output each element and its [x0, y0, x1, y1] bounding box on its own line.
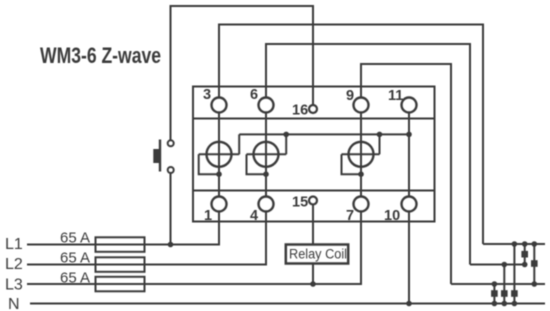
wire relay coil to L3 [312, 264, 314, 285]
load R5 (phase A to C) [531, 260, 538, 267]
terminal 10 [402, 197, 417, 212]
M1 shunt loop [199, 154, 219, 174]
load drop A-N [513, 244, 515, 304]
wire neutral inside meter (11 to 10) [408, 114, 410, 197]
terminal 3 [212, 98, 227, 113]
svg-text:15: 15 [292, 195, 308, 211]
wire phase A inside meter (3 to 1) [218, 114, 220, 197]
M3 shunt loop [342, 154, 362, 174]
wire L3 to terminal 7 [27, 212, 361, 284]
junction M1 shunt/phase A [216, 171, 222, 177]
wire terminal 6 to right side drop [266, 44, 470, 265]
wire terminal 3 to right side drop [219, 25, 483, 245]
junction load C on line C [492, 281, 498, 287]
terminal 1 [212, 197, 227, 212]
junction load C on N [492, 301, 498, 307]
svg-text:L3: L3 [5, 277, 23, 294]
svg-text:WM3-6 Z-wave: WM3-6 Z-wave [40, 43, 161, 68]
terminal 4 [259, 197, 274, 212]
wire terminal 10 to N [408, 212, 410, 304]
pushbutton S1 actuator bar [159, 140, 161, 172]
junction load A on line A [512, 241, 518, 247]
junction terminal 10 wire on N [406, 301, 412, 307]
meter top terminal strip divider [193, 118, 435, 120]
wire terminal 9 to right side drop [361, 64, 451, 284]
svg-text:9: 9 [346, 88, 354, 104]
wire L1 to terminal 1 [27, 212, 219, 245]
load R1 (phase A to N) [511, 290, 518, 297]
load line phase B (right) [470, 264, 525, 266]
load drop A-B [524, 244, 526, 265]
junction load A-B top [522, 241, 528, 247]
measuring element M2 [254, 142, 279, 167]
M2 voltage riser [285, 134, 287, 154]
load R3 (phase C to N) [491, 290, 498, 297]
load drop C-N [493, 284, 495, 304]
measuring element M3 [349, 142, 374, 167]
load line phase A (right) [483, 243, 545, 245]
load R2 (phase B to N) [501, 290, 508, 297]
wire terminal 15 to relay coil [312, 205, 314, 245]
svg-text:L1: L1 [5, 236, 23, 253]
svg-text:65 A: 65 A [60, 250, 90, 267]
junction M3 shunt/phase C [358, 171, 364, 177]
load drop A-C [533, 244, 535, 284]
fuse F1 65A [96, 237, 145, 252]
svg-text:65 A: 65 A [60, 230, 90, 247]
relay coil K1 box [286, 245, 348, 264]
junction load B on line B [502, 262, 508, 268]
svg-text:7: 7 [346, 208, 354, 224]
junction load A on N [512, 301, 518, 307]
junction M2 shunt/phase B [263, 171, 269, 177]
terminal 9 [354, 98, 369, 113]
junction bus/neutral wire [406, 132, 412, 138]
junction M2 riser/bus [283, 132, 289, 138]
load line phase C (right) [451, 283, 545, 285]
pushbutton S1 cap [153, 149, 159, 163]
junction load A-B bottom [522, 262, 528, 268]
svg-text:11: 11 [388, 88, 403, 104]
terminal 6 [259, 98, 274, 113]
junction pushbutton tap on L1 [168, 242, 174, 248]
fuse F2 65A [96, 257, 145, 272]
svg-text:4: 4 [250, 208, 258, 224]
junction M3 riser/bus [377, 132, 383, 138]
meter bottom terminal strip divider [193, 190, 435, 192]
measuring element M1 [207, 142, 232, 167]
fuse F3 65A [96, 277, 145, 292]
svg-text:10: 10 [384, 208, 400, 224]
terminal 11 [402, 98, 417, 113]
svg-text:L2: L2 [5, 256, 23, 273]
wire phase C inside meter (9 to 7) [360, 114, 362, 197]
terminal 15 [309, 197, 317, 205]
wire L2 to terminal 4 [27, 212, 266, 265]
junction relay coil tap on L3 [310, 281, 316, 287]
svg-text:65 A: 65 A [60, 270, 90, 287]
svg-text:3: 3 [203, 87, 211, 103]
svg-text:16: 16 [292, 103, 308, 119]
pushbutton S1 contacts [168, 140, 174, 146]
junction load B on N [502, 301, 508, 307]
load drop B-N [503, 265, 505, 304]
meter outline box [193, 87, 435, 222]
M1 voltage riser [238, 134, 240, 154]
wire pushbutton to L1 tap [170, 173, 172, 245]
junction load A-C top [532, 241, 538, 247]
voltage bus wire [239, 133, 409, 135]
load R4 (phase A to B) [521, 251, 528, 258]
M2 shunt loop [247, 154, 267, 174]
svg-text:6: 6 [250, 87, 258, 103]
svg-text:Relay Coil: Relay Coil [289, 247, 347, 262]
terminal 16 [309, 105, 317, 113]
junction load A-C bottom [532, 281, 538, 287]
M3 voltage riser [379, 134, 381, 154]
svg-text:N: N [8, 296, 20, 311]
wire N bus [30, 303, 545, 305]
wire L1-to-pushbutton-to-terminal-16 (top loop) [171, 6, 314, 140]
svg-text:1: 1 [204, 208, 212, 224]
wire phase B inside meter (6 to 4) [265, 114, 267, 197]
terminal 7 [354, 197, 369, 212]
